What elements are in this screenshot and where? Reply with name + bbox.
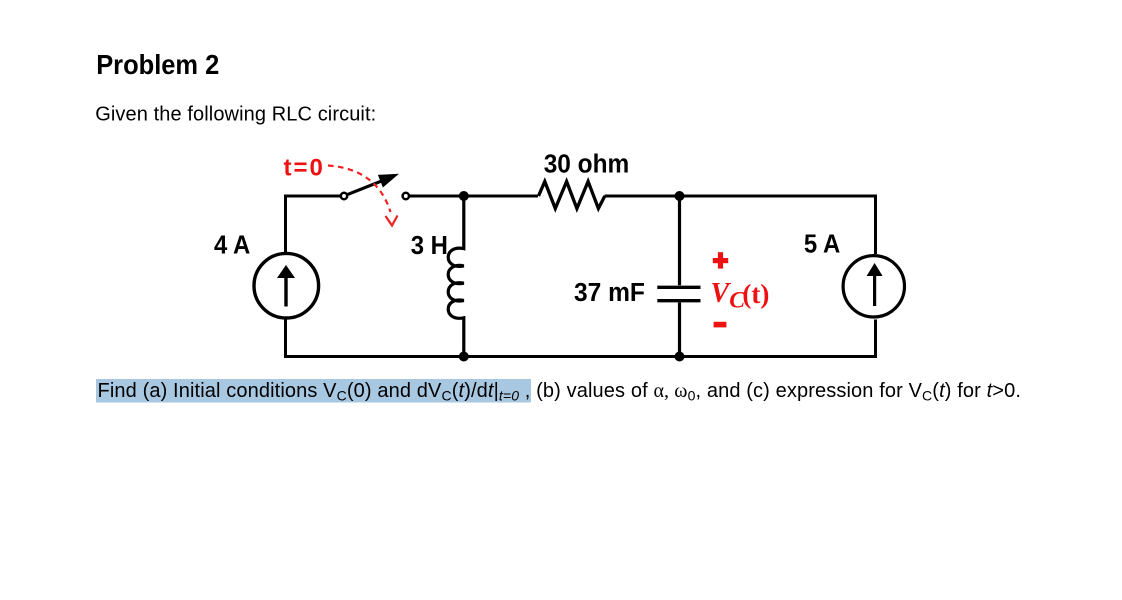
red dashed actuation arc with arrowhead bbox=[328, 166, 398, 226]
svg-text:37 mF: 37 mF bbox=[574, 279, 645, 308]
svg-text:5 A: 5 A bbox=[804, 230, 840, 259]
svg-text:30 ohm: 30 ohm bbox=[544, 150, 630, 179]
svg-text:3 H: 3 H bbox=[411, 231, 448, 260]
label t=0 (red) bbox=[284, 155, 325, 182]
polarity + (red) bbox=[713, 252, 728, 268]
wire: right branch vertical (5A source leads) bbox=[874, 195, 877, 359]
highlight rectangle behind find-question text bbox=[96, 379, 531, 403]
label 3 H bbox=[411, 231, 448, 260]
wire: top rail right of switch to right corner bbox=[410, 195, 539, 198]
resistor R1 30 ohm (zigzag) bbox=[539, 182, 605, 209]
capacitor C1 37mF bbox=[657, 196, 700, 357]
caption "Given the following RLC circuit:" bbox=[95, 104, 376, 126]
label 4 A bbox=[214, 231, 250, 260]
svg-text:VC(t): VC(t) bbox=[711, 278, 770, 313]
switch SW (open, t=0) bbox=[341, 174, 409, 199]
label 30 ohm bbox=[544, 150, 630, 179]
title "Problem 2" bbox=[96, 49, 219, 80]
label Vc(t) (red italic) bbox=[711, 278, 770, 313]
current source I1 4A (circle + up arrow) bbox=[254, 253, 319, 318]
wire: top rail resistor right to corner bbox=[605, 195, 876, 198]
current source I2 5A (circle + up arrow) bbox=[843, 256, 904, 317]
label 37 mF bbox=[574, 279, 645, 308]
node dot: inductor bottom junction bbox=[459, 352, 469, 362]
svg-text:4 A: 4 A bbox=[214, 231, 250, 260]
svg-text:Given the following RLC circui: Given the following RLC circuit: bbox=[95, 104, 376, 126]
node dot: inductor top junction bbox=[459, 191, 469, 201]
wire: left branch vertical (4A source leads) bbox=[284, 195, 287, 359]
inductor L1 3H vertical bbox=[448, 196, 464, 357]
wire: bottom rail bbox=[284, 355, 877, 358]
question text line bbox=[98, 380, 1022, 404]
svg-text:t=0: t=0 bbox=[284, 155, 325, 182]
svg-text:Find (a) Initial conditions VC: Find (a) Initial conditions VC(0) and dV… bbox=[98, 380, 1022, 404]
polarity - (red) bbox=[714, 322, 727, 328]
wire: top rail left segment (source to switch) bbox=[286, 195, 341, 198]
node dot: capacitor top junction bbox=[675, 191, 685, 201]
label 5 A bbox=[804, 230, 840, 259]
svg-text:Problem 2: Problem 2 bbox=[96, 49, 219, 80]
node dot: capacitor bottom junction bbox=[675, 352, 685, 362]
